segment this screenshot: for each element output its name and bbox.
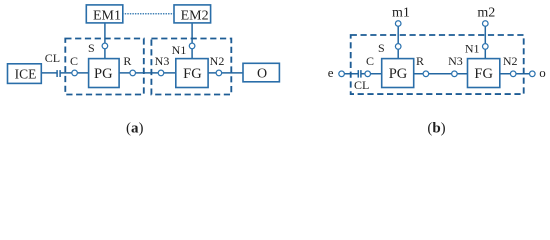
svg-text:CL: CL [354, 78, 369, 92]
svg-text:PG: PG [389, 66, 408, 82]
svg-text:N1: N1 [172, 43, 187, 57]
svg-text:C: C [366, 54, 374, 68]
svg-text:o: o [539, 65, 546, 80]
svg-text:EM1: EM1 [93, 9, 121, 24]
svg-text:N3: N3 [448, 54, 463, 68]
svg-text:m2: m2 [477, 6, 495, 21]
svg-text:CL: CL [45, 51, 60, 65]
svg-text:N2: N2 [210, 54, 225, 68]
svg-text:EM2: EM2 [181, 9, 209, 24]
svg-text:N1: N1 [465, 41, 480, 55]
svg-text:e: e [328, 65, 334, 80]
svg-text:O: O [257, 66, 267, 81]
svg-text:N2: N2 [503, 54, 518, 68]
svg-text:(b): (b) [427, 120, 445, 136]
svg-text:C: C [70, 54, 78, 68]
svg-text:ICE: ICE [15, 66, 37, 81]
svg-text:(a): (a) [126, 120, 144, 136]
svg-text:m1: m1 [392, 6, 410, 21]
svg-text:N3: N3 [155, 54, 170, 68]
svg-text:S: S [378, 41, 385, 55]
svg-text:R: R [123, 54, 131, 68]
svg-text:FG: FG [474, 66, 493, 82]
svg-text:PG: PG [94, 66, 113, 82]
svg-text:FG: FG [183, 66, 202, 82]
svg-text:R: R [416, 54, 424, 68]
svg-text:S: S [88, 41, 95, 55]
